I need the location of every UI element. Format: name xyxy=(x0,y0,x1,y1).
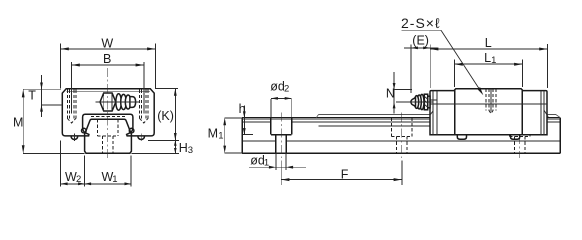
svg-text:1: 1 xyxy=(112,174,117,185)
svg-text:B: B xyxy=(103,52,111,66)
svg-text:L: L xyxy=(484,51,491,65)
svg-text:N: N xyxy=(386,86,395,100)
svg-text:(K): (K) xyxy=(157,109,174,123)
svg-text:L: L xyxy=(485,36,492,50)
end seal feet xyxy=(457,135,466,140)
seal cutout chamfer left xyxy=(430,111,433,115)
dimension N xyxy=(393,72,395,114)
dimension d1 xyxy=(275,153,277,170)
dimension h xyxy=(243,106,245,135)
svg-text:T: T xyxy=(28,88,36,102)
ball right xyxy=(129,128,134,133)
svg-text:3: 3 xyxy=(188,145,193,156)
dimension M xyxy=(23,88,61,90)
center line of rail / nipple xyxy=(107,68,109,158)
svg-text:H: H xyxy=(179,141,188,155)
tapped hole left (hidden) xyxy=(67,90,76,123)
seal screw right xyxy=(138,136,145,139)
rail top edge (hidden behind seal) xyxy=(91,115,125,117)
dimension (E) xyxy=(410,45,412,94)
dimension L1 xyxy=(454,60,456,88)
svg-text:F: F xyxy=(341,167,349,181)
grease nipple (side view, pointing left) xyxy=(396,94,437,110)
rail cross-section xyxy=(85,119,132,153)
svg-text:ød: ød xyxy=(270,79,285,93)
rail side view xyxy=(242,117,430,119)
leader 2-SxL xyxy=(402,29,442,31)
tapped hole S (hidden) in block xyxy=(485,89,487,111)
dimension B xyxy=(71,62,73,114)
LM block cross-section (end seal face) xyxy=(62,89,154,136)
dimension M1 xyxy=(225,117,244,119)
svg-text:1: 1 xyxy=(264,157,269,168)
dimension d2 xyxy=(270,99,272,117)
svg-text:2-S×ℓ: 2-S×ℓ xyxy=(401,15,441,31)
grease nipple (front view, pointing right) xyxy=(96,93,140,111)
svg-text:1: 1 xyxy=(491,55,496,66)
svg-text:ød: ød xyxy=(250,153,265,167)
dimension L xyxy=(546,44,548,88)
dimension H3 xyxy=(148,139,179,141)
sectioned counterbore at rail left end xyxy=(270,118,272,135)
seal screw left xyxy=(71,136,78,139)
seal cutout chamfer right xyxy=(544,110,548,117)
dimension (K) xyxy=(155,87,178,89)
tapped hole right (hidden) xyxy=(140,90,149,123)
dimension W xyxy=(60,44,62,89)
end seal top edge (inner line) xyxy=(66,90,150,92)
ball left xyxy=(82,128,87,133)
svg-text:(E): (E) xyxy=(412,34,429,48)
svg-text:h: h xyxy=(239,102,246,116)
rail mounting hole 3 (hidden, under block) xyxy=(508,135,510,137)
svg-text:2: 2 xyxy=(284,83,289,94)
dimensions W2 / W1 xyxy=(60,141,62,187)
dimension T xyxy=(41,75,43,117)
LM block side view xyxy=(430,89,547,135)
svg-text:M: M xyxy=(208,127,218,141)
svg-text:W: W xyxy=(101,36,113,50)
dimension F xyxy=(280,161,282,185)
rail bolt hole counterbore (hidden) xyxy=(96,119,98,135)
rail mounting hole 2 (hidden) xyxy=(390,118,392,137)
svg-text:2: 2 xyxy=(76,174,81,185)
svg-text:M: M xyxy=(13,116,23,130)
svg-text:1: 1 xyxy=(218,131,223,142)
